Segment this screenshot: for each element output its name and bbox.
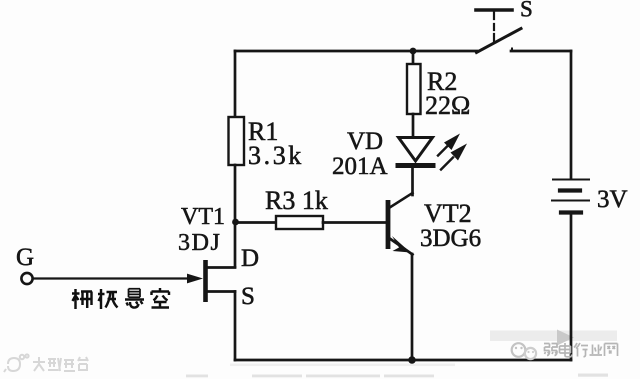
terminal G open circle: [21, 273, 32, 284]
svg-text:R3 1k: R3 1k: [265, 186, 328, 215]
watermark bottom-left logo: [4, 354, 29, 372]
wire R3 right to VT2 base: [323, 221, 386, 224]
switch S lever: [477, 29, 522, 53]
svg-text:D: D: [241, 245, 259, 272]
wire R2 to LED: [412, 114, 415, 138]
watermark bottom-left text (hand-drawn gray): [33, 357, 88, 371]
wire emitter down: [411, 254, 414, 360]
switch S button bar: [476, 8, 512, 12]
VT2 emitter arrowhead: [392, 236, 411, 253]
svg-text:G: G: [16, 244, 34, 271]
wire right lower: [570, 214, 573, 360]
gate lead wire: [33, 277, 191, 279]
LED light arrow 2: [441, 144, 467, 170]
battery plate2 short thick: [560, 188, 580, 192]
faint scan smear under bottom wire: [230, 364, 455, 367]
svg-text:S: S: [520, 0, 533, 22]
svg-text:VT1: VT1: [181, 204, 225, 230]
caption bottom faint remnants: [186, 374, 608, 378]
wire source down: [234, 292, 237, 361]
battery plate3 long: [552, 200, 589, 202]
label gate-floating Chinese text (hand-drawn strokes): [72, 288, 169, 309]
svg-text:3DG6: 3DG6: [420, 225, 481, 252]
transistor VT2 base bar: [386, 200, 391, 249]
svg-text:22Ω: 22Ω: [425, 91, 470, 120]
node R3 junction: [232, 219, 239, 226]
LED VD triangle: [399, 138, 433, 162]
svg-text:201A: 201A: [332, 153, 388, 180]
wire R2 top: [412, 51, 415, 64]
battery BT 3V plate1 long: [553, 179, 589, 181]
svg-text:VD: VD: [347, 128, 383, 155]
wire top horizontal: [235, 50, 477, 53]
VT1 source lead: [207, 290, 235, 293]
watermark backdrop band bottom-right: [490, 331, 617, 342]
node top junction: [410, 48, 417, 55]
VT2 collector lead: [389, 193, 413, 208]
wire switch right contact: [511, 50, 571, 53]
watermark play-arrow glyph: [557, 330, 574, 346]
LED cathode bar: [398, 163, 433, 168]
transistor VT1 channel bar: [203, 260, 208, 302]
wire right upper: [570, 51, 573, 179]
watermark bottom-right text: hand-drawn gray glyphs: [544, 343, 618, 357]
LED light arrow 1: [438, 134, 460, 156]
node bottom junction: [408, 356, 416, 364]
svg-text:3V: 3V: [597, 186, 628, 213]
svg-text:VT2: VT2: [424, 199, 472, 228]
wire R3 left: [238, 221, 276, 224]
VT1 drain lead: [207, 266, 235, 269]
svg-text:3.3k: 3.3k: [248, 141, 304, 170]
switch right contact nub: [511, 49, 513, 52]
wire bottom horizontal: [235, 359, 571, 362]
battery plate4 short thick: [561, 210, 581, 214]
gate arrowhead: [187, 274, 203, 284]
switch S stem dashed: [493, 12, 495, 41]
resistor R1: [229, 117, 245, 165]
VT2 emitter lead: [389, 238, 413, 255]
resistor R2: [407, 64, 421, 114]
resistor R3: [276, 216, 323, 229]
svg-text:S: S: [241, 283, 255, 310]
watermark bottom-right logo: [512, 343, 536, 359]
wire left upper: [234, 51, 237, 117]
wire LED to VT2 collector: [411, 166, 414, 195]
svg-text:3DJ: 3DJ: [178, 230, 221, 256]
wire left middle (R1 to drain corner): [234, 165, 237, 267]
